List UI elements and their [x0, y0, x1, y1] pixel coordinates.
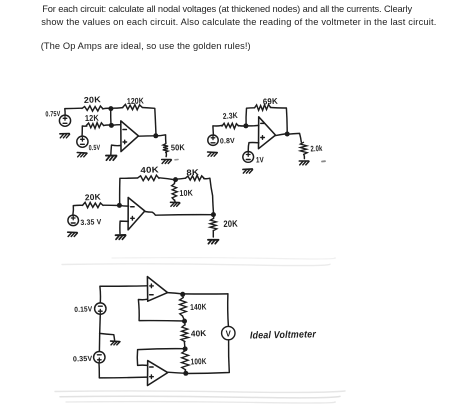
svg-text:20K: 20K — [84, 94, 102, 105]
svg-text:0.5V: 0.5V — [89, 143, 101, 152]
svg-text:For each circuit: calculate al: For each circuit: calculate all nodal vo… — [42, 4, 412, 14]
svg-text:0.35V: 0.35V — [73, 354, 93, 364]
svg-text:20K: 20K — [85, 192, 102, 203]
svg-text:(The Op Amps are ideal, so use: (The Op Amps are ideal, so use the golde… — [41, 41, 251, 51]
svg-text:0.75V: 0.75V — [45, 109, 60, 119]
svg-text:0.15V: 0.15V — [74, 304, 92, 314]
svg-text:10K: 10K — [179, 188, 193, 198]
svg-text:100K: 100K — [191, 356, 207, 367]
svg-text:V: V — [226, 330, 232, 339]
svg-text:8K: 8K — [186, 167, 199, 177]
svg-text:40K: 40K — [140, 164, 159, 175]
svg-text:50K: 50K — [171, 142, 185, 152]
svg-text:12K: 12K — [85, 113, 99, 123]
svg-text:2.3K: 2.3K — [223, 111, 239, 121]
svg-text:Ideal Voltmeter: Ideal Voltmeter — [250, 329, 317, 341]
svg-text:40K: 40K — [191, 328, 207, 339]
svg-text:140K: 140K — [190, 301, 207, 312]
svg-text:0.8V: 0.8V — [220, 136, 235, 146]
svg-text:3.35 V: 3.35 V — [80, 217, 102, 227]
svg-text:1V: 1V — [256, 155, 265, 164]
svg-text:120K: 120K — [127, 95, 144, 106]
svg-text:69K: 69K — [263, 96, 279, 107]
svg-text:2.0k: 2.0k — [310, 144, 323, 154]
svg-text:show the values on each circui: show the values on each circuit. Also ca… — [41, 17, 436, 27]
svg-text:20K: 20K — [223, 218, 238, 229]
